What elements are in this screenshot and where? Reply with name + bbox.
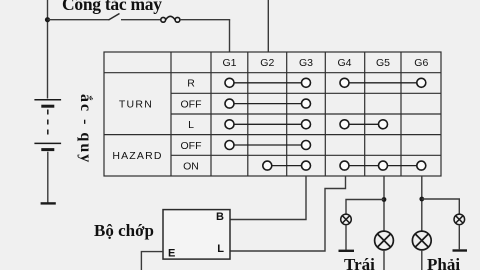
wire G3 drop to flasher B	[230, 176, 306, 220]
wire Trái lamp down	[383, 250, 385, 270]
svg-text:OFF: OFF	[181, 140, 202, 152]
wire Phải lamp down	[421, 250, 423, 270]
svg-text:TURN: TURN	[119, 98, 153, 110]
contact circle L G3	[302, 120, 311, 129]
ground terminal bar of battery	[41, 202, 56, 204]
row R contact line G4-G6	[345, 82, 422, 84]
table vertical line G1/G2	[247, 52, 249, 176]
table vertical line pos/G1	[210, 52, 212, 176]
contact circle L G4	[340, 120, 349, 129]
wire fuse to corner	[180, 19, 230, 21]
node right branch junction	[419, 197, 424, 202]
contact circle R G1	[225, 78, 234, 87]
table horizontal header line	[104, 72, 441, 74]
svg-text:Trái: Trái	[344, 255, 375, 270]
row R contact line G1-G3	[230, 82, 307, 84]
contact circle ON G2	[263, 161, 272, 170]
svg-text:G1: G1	[222, 57, 236, 69]
contact circle L G1	[225, 120, 234, 129]
svg-text:R: R	[187, 78, 195, 90]
contact circle R G3	[302, 78, 311, 87]
wire battery direct feed to G2 from top edge	[267, 0, 269, 52]
svg-text:G2: G2	[260, 57, 274, 69]
table switch matrix outer frame	[104, 52, 441, 176]
contact circle ON G4	[340, 161, 349, 170]
wire branch to left front lamp	[346, 200, 384, 215]
svg-text:G6: G6	[414, 57, 428, 69]
table horizontal line TURN/HAZARD	[104, 134, 441, 136]
svg-text:L: L	[217, 243, 224, 255]
battery second cell negative plate	[41, 148, 54, 151]
contact circle OFF G1	[225, 99, 234, 108]
fuse F1 (circuit breaker symbol)	[161, 16, 180, 22]
wire switch to fuse	[121, 19, 161, 21]
row ON contact line G4-G6	[345, 165, 422, 167]
wire battery negative down	[47, 152, 49, 203]
flasher unit box Bộ chớp	[163, 210, 230, 260]
contact circle ON G6	[417, 161, 426, 170]
switch S1 ignition blade	[109, 14, 120, 21]
table vertical line col label/pos	[170, 52, 172, 176]
svg-text:Bộ chớp: Bộ chớp	[94, 221, 154, 240]
svg-text:Công tắc máy: Công tắc máy	[62, 0, 162, 14]
contact circle ON G3	[302, 161, 311, 170]
wire left front lamp to ground	[345, 225, 347, 250]
row ON contact line G2-G3	[267, 165, 306, 167]
node junction at battery top	[45, 17, 50, 22]
wire corner down to table G1	[229, 20, 231, 52]
svg-text:G3: G3	[299, 57, 313, 69]
table vertical line G2/G3	[286, 52, 288, 176]
wire right front lamp to ground	[458, 225, 460, 250]
row OFF hazard contact line G1-G3	[230, 144, 307, 146]
contact circle OFF2 G1	[225, 141, 234, 150]
svg-text:ắc - quy: ắc - quy	[77, 94, 94, 164]
svg-text:G4: G4	[337, 57, 351, 69]
contact circle R G6	[417, 78, 426, 87]
ground left front lamp	[339, 250, 355, 252]
ground right front lamp	[453, 249, 468, 251]
lamp left front (small)	[341, 214, 352, 225]
wire branch to right front lamp	[422, 199, 460, 214]
wire G5 drop	[383, 176, 385, 231]
lamp right front (small)	[454, 214, 465, 225]
wire from junction to ignition switch	[48, 19, 110, 21]
contact circle OFF2 G3	[302, 141, 311, 150]
table vertical line G3/G4	[324, 52, 326, 176]
contact circle ON G5	[379, 161, 388, 170]
wire G4 drop jog to flasher L	[230, 176, 346, 251]
lamp Trái (big)	[375, 231, 394, 250]
battery dashed middle	[47, 110, 49, 140]
svg-text:E: E	[168, 248, 175, 260]
table vertical line G5/G6	[400, 52, 402, 176]
wire battery feed vertical from top edge	[47, 0, 49, 99]
battery positive plate	[34, 99, 61, 101]
table horizontal line OFF/L	[171, 113, 441, 115]
contact circle L G5	[379, 120, 388, 129]
row L contact line G1-G3	[230, 123, 307, 125]
lamp Phải (big)	[412, 231, 431, 250]
battery second cell positive plate	[34, 142, 61, 144]
table vertical line G4/G5	[364, 52, 366, 176]
svg-text:B: B	[216, 211, 224, 223]
row L contact line G4-G5	[345, 123, 384, 125]
battery negative plate	[41, 105, 54, 108]
node left branch junction	[382, 197, 387, 202]
svg-text:G5: G5	[376, 57, 390, 69]
svg-text:L: L	[188, 119, 194, 131]
table horizontal line R/OFF	[171, 92, 441, 94]
row OFF contact line G1-G3	[230, 103, 307, 105]
svg-text:ON: ON	[183, 160, 199, 172]
wire G6 drop	[421, 176, 423, 231]
svg-text:HAZARD: HAZARD	[112, 150, 162, 162]
contact circle R G4	[340, 78, 349, 87]
contact circle OFF G3	[302, 99, 311, 108]
svg-text:OFF: OFF	[181, 98, 202, 110]
svg-text:Phải: Phải	[427, 255, 460, 270]
wire flasher E to ground	[141, 252, 163, 270]
table horizontal line OFF/ON	[171, 154, 441, 156]
